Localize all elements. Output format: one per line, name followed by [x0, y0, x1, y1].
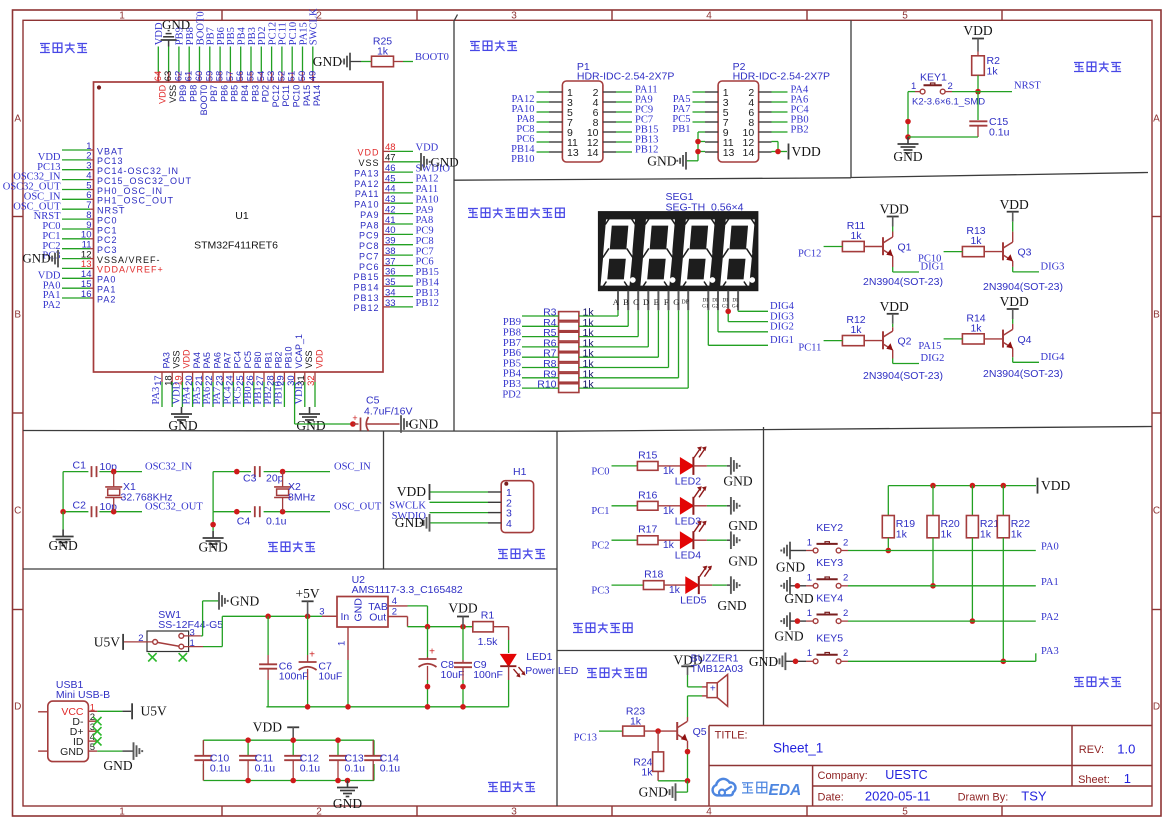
svg-text:2: 2 [843, 648, 848, 659]
resistor R11 1k [842, 220, 865, 252]
svg-text:48: 48 [385, 142, 396, 153]
svg-text:C3: C3 [243, 473, 257, 485]
svg-text:PA3: PA3 [151, 387, 162, 405]
svg-text:0.1u: 0.1u [989, 127, 1010, 139]
junction decoupling gnd [345, 778, 351, 784]
wire LED1 to gnd rail [508, 666, 510, 707]
net label BOOT0 [415, 52, 449, 63]
svg-text:2N3904(SOT-23): 2N3904(SOT-23) [863, 276, 943, 288]
mcu U1 pin 49 PA14 [307, 8, 322, 106]
svg-text:+: + [429, 647, 435, 658]
junction +5V [305, 614, 311, 620]
resistor R19 1k [882, 516, 915, 541]
mcu U1 pin 5 PH0_OSC_IN [24, 180, 163, 202]
net label PA11 [635, 85, 658, 96]
wire OSC left rail [213, 472, 251, 512]
net label PC11 [798, 343, 821, 354]
svg-text:20p: 20p [266, 473, 284, 485]
wire C4 to OSC_OUT [264, 511, 330, 513]
svg-text:D: D [1153, 702, 1160, 713]
svg-text:14: 14 [587, 147, 599, 159]
power flag VDD at Q2 [880, 299, 909, 324]
ground at KEY4 [774, 612, 803, 643]
svg-text:2: 2 [316, 806, 322, 817]
mcu U1 pin 57 PB5 [225, 27, 240, 102]
svg-text:+5V: +5V [296, 586, 320, 601]
svg-text:GND: GND [723, 474, 752, 489]
svg-text:KEY3: KEY3 [816, 557, 843, 569]
display SEG1 SEG-TH_0.56x4 [598, 191, 758, 291]
svg-text:TITLE:: TITLE: [715, 730, 748, 742]
wire LED3 to GND [693, 505, 730, 507]
mcu U1 pin 53 PC12 [266, 22, 281, 107]
mcu U1 pin 3 PC14-OSC32_IN [13, 161, 179, 183]
wire R10 to segment pin [579, 310, 688, 388]
capacitor C12 0.1u [284, 740, 320, 780]
svg-text:2N3904(SOT-23): 2N3904(SOT-23) [863, 370, 943, 382]
svg-text:PH1_OSC_OUT: PH1_OSC_OUT [97, 196, 174, 206]
svg-text:+: + [352, 413, 357, 423]
svg-text:PC10: PC10 [292, 85, 302, 108]
mcu U1 pin 37 PC6 [359, 256, 434, 272]
mcu U1 pin 36 PB15 [353, 267, 438, 283]
resistor R23 1k [623, 706, 646, 737]
wire R25 to BOOT0 [394, 61, 414, 63]
svg-text:32.768KHz: 32.768KHz [121, 492, 173, 504]
svg-text:PB8: PB8 [189, 85, 199, 102]
led LED5 [680, 566, 712, 607]
net label PC2 [591, 541, 609, 552]
svg-text:DIG2: DIG2 [921, 353, 945, 364]
resistor R16 1k [637, 489, 674, 517]
svg-text:VDDA/VREF+: VDDA/VREF+ [97, 265, 164, 275]
transistor Q3 2N3904 [983, 242, 1063, 293]
junction KEY1 gnd b [905, 134, 911, 140]
svg-text:HDR-IDC-2.54-2X7P: HDR-IDC-2.54-2X7P [577, 71, 674, 83]
mcu U1 pin 33 PB12 [353, 298, 438, 313]
svg-text:PB6: PB6 [219, 85, 229, 102]
svg-text:1k: 1k [970, 322, 982, 334]
wire Q4 collector to DIG4 [1013, 348, 1039, 362]
svg-text:PA1: PA1 [97, 285, 116, 295]
svg-text:PB7: PB7 [209, 85, 219, 102]
no-connect marks USB [93, 717, 101, 746]
svg-text:Q5: Q5 [693, 726, 707, 738]
mcu U1 pin 40 PC9 [359, 225, 434, 241]
ground at KEY1 [893, 137, 922, 164]
net label PB1 [672, 124, 690, 135]
mcu U1 pin 51 PC10 [287, 22, 302, 107]
svg-text:Drawn By:: Drawn By: [958, 791, 1009, 803]
svg-text:PC3: PC3 [97, 245, 118, 255]
svg-text:PA4: PA4 [192, 352, 202, 368]
net label DIG1 [770, 335, 794, 346]
wire buzzer pin2 to Q5 collector [688, 696, 708, 717]
svg-text:100nF: 100nF [279, 671, 309, 683]
ground at USB1 [103, 742, 142, 773]
net label DIG3 [770, 311, 794, 322]
power flag +5V [296, 586, 320, 616]
wire Q5 emitter down [687, 741, 689, 781]
junction gnd rail U2 [345, 704, 351, 710]
svg-text:GND: GND [162, 17, 190, 32]
net label PA15 [918, 341, 941, 352]
svg-text:KEY5: KEY5 [816, 633, 843, 645]
svg-text:VDD: VDD [1000, 197, 1029, 212]
svg-text:Q3: Q3 [1018, 247, 1032, 259]
wire LED4 to GND [693, 539, 730, 541]
svg-text:GND: GND [198, 540, 227, 555]
junction decoupling bottom [290, 778, 296, 784]
wire decoupling bottom rail [203, 764, 374, 781]
mcu U1 pin 10 PC2 [42, 230, 117, 252]
svg-text:PC7: PC7 [416, 246, 434, 257]
resistor R13 1k [962, 225, 985, 257]
svg-text:A: A [1153, 114, 1160, 125]
net label DIG4 [770, 301, 795, 312]
svg-text:G1: G1 [702, 304, 709, 310]
power flag VDD keys [1038, 478, 1071, 494]
wire Q3 collector to DIG3 [1013, 261, 1039, 272]
svg-text:PB10: PB10 [284, 346, 294, 368]
net label PC0 [591, 466, 609, 477]
net label PA2 [1041, 612, 1059, 623]
svg-text:R10: R10 [537, 379, 556, 391]
junction decoupling top [245, 737, 251, 743]
mcu U1 pin 11 PC3 [42, 240, 117, 262]
power flag VDD decoupling [253, 720, 299, 741]
svg-text:U1: U1 [235, 210, 249, 222]
mcu U1 pin 61 PB8 [184, 27, 199, 102]
mcu U1 pin 63 VSS [163, 47, 178, 103]
logo LCEDA [713, 779, 802, 799]
wire PB6 left [522, 346, 559, 348]
resistor R21 1k [966, 516, 999, 541]
wire PA15 to R14 [944, 338, 963, 340]
net label DIG4 [1041, 352, 1066, 363]
net label PC5 [672, 114, 690, 125]
ground at U1 pin 47 VSS [413, 161, 421, 163]
svg-text:PB12: PB12 [353, 303, 379, 313]
junction DIG3/DIG4 [725, 309, 731, 315]
junction X1 bottom [111, 509, 117, 515]
wire C2 to OSC32_OUT [99, 511, 142, 513]
section title 主控芯片 [40, 43, 87, 54]
resistor R14 1k [962, 312, 985, 344]
section title 蜂鸣器电路 [587, 668, 646, 679]
connector USB1 Mini USB-B [38, 679, 110, 762]
mcu U1 body [94, 82, 384, 372]
svg-text:PA13: PA13 [354, 168, 379, 178]
svg-text:DIG3: DIG3 [1041, 261, 1065, 272]
ground at KEY3 [781, 577, 814, 606]
svg-text:H1: H1 [513, 466, 527, 478]
svg-text:LED3: LED3 [675, 515, 701, 527]
svg-text:+: + [309, 650, 315, 661]
svg-text:PC15_OSC32_OUT: PC15_OSC32_OUT [97, 176, 192, 186]
net label PB5 [503, 358, 521, 369]
power flag VDD power [448, 601, 477, 627]
net label PA3 [1036, 646, 1059, 662]
wire PC1 to R16 [612, 505, 638, 507]
switch KEY1 K2-3.6x6.1_SMD [911, 72, 985, 108]
net label PB0 [791, 115, 809, 126]
wire U2 GND pin1 [347, 627, 349, 707]
wire power gnd rail [266, 706, 508, 708]
svg-text:LED1: LED1 [526, 651, 552, 663]
transistor Q4 2N3904 [983, 329, 1063, 380]
net label PC6 [516, 134, 534, 145]
wire U2 Out pin2 [388, 617, 473, 627]
svg-text:1: 1 [807, 573, 812, 584]
svg-text:Date:: Date: [818, 791, 844, 803]
svg-text:G4: G4 [732, 304, 739, 310]
switch KEY3 [790, 557, 848, 588]
svg-text:PA6: PA6 [212, 352, 222, 368]
junction X1 top [111, 469, 117, 475]
wire KEY4 to PA2 [848, 620, 1036, 622]
junction VDD node C9 [460, 624, 466, 630]
capacitor C15 0.1u [969, 92, 1009, 139]
svg-text:PC14-OSC32_IN: PC14-OSC32_IN [97, 166, 179, 176]
resistor R25 1k [372, 36, 394, 67]
svg-text:PB10: PB10 [511, 154, 534, 165]
transistor Q5 [677, 722, 707, 741]
mcu U1 pin 1 VBAT [38, 141, 124, 163]
junction gnd rail C8 [425, 704, 431, 710]
net label OSC_IN [334, 461, 371, 472]
resistor R17 1k [637, 524, 674, 552]
svg-text:Q2: Q2 [898, 336, 912, 348]
net label PA10 [512, 104, 535, 115]
svg-text:VDD: VDD [880, 202, 909, 217]
wire PC3 to R18 [612, 584, 644, 586]
svg-text:2: 2 [843, 608, 848, 619]
svg-text:B: B [1153, 310, 1160, 321]
svg-text:PB10: PB10 [273, 381, 284, 404]
section title 外扩接口 [470, 41, 517, 52]
mcu U1 pin 20 PA4 [182, 352, 202, 407]
wire VDD rail to R22 [1002, 486, 1004, 516]
switch SW1 SS-12F44-G5 [138, 609, 223, 652]
wire R20 to KEY3 row [932, 538, 934, 586]
svg-text:VDD: VDD [182, 349, 192, 369]
svg-text:PB2: PB2 [274, 351, 284, 368]
ground at X1 [48, 530, 77, 554]
net label OSC_OUT [334, 501, 382, 512]
mcu U1 pin 50 PA15 [297, 22, 312, 106]
wire C15 to GND [908, 136, 978, 138]
svg-text:49: 49 [307, 71, 318, 82]
svg-text:PA5: PA5 [202, 352, 212, 368]
net label PB4 [503, 369, 522, 380]
mcu U1 pin 7 NRST [34, 200, 126, 222]
section title 指示灯电路 [573, 623, 632, 634]
svg-text:PC9: PC9 [359, 231, 380, 241]
wire R23 to Q5 base [644, 730, 677, 732]
junction P2 pin13 [695, 149, 701, 155]
svg-text:VBAT: VBAT [97, 146, 124, 156]
section title 调试电路 [498, 549, 545, 560]
svg-text:PB9: PB9 [178, 85, 188, 102]
buzzer BUZZER1 TMB12A03 [691, 653, 744, 707]
svg-text:1k: 1k [663, 505, 675, 517]
net label PB7 [503, 338, 521, 349]
wire VDD to Q1 emitter [892, 227, 894, 238]
mcu U1 pin 14 PA0 [43, 269, 117, 291]
wire DIG1 [708, 310, 768, 345]
svg-text:VDD: VDD [357, 148, 379, 158]
svg-text:TMB12A03: TMB12A03 [691, 663, 744, 675]
svg-text:PB3: PB3 [250, 85, 260, 102]
connector P2 HDR-IDC-2.54-2X7P [693, 61, 831, 162]
svg-text:PB14: PB14 [353, 283, 379, 293]
wire PC0 to R15 [612, 465, 638, 467]
section title 四位共阳极数码管 [468, 208, 564, 218]
net label PA7 [673, 104, 691, 115]
wire NRST [978, 91, 1012, 93]
power flag VDD at H1 [397, 484, 430, 500]
svg-text:13: 13 [567, 147, 579, 159]
resistor R15 1k [637, 449, 674, 477]
junction P2 pin14 [775, 149, 781, 155]
svg-text:1k: 1k [583, 379, 595, 391]
svg-text:2: 2 [843, 537, 848, 548]
svg-text:44: 44 [385, 184, 396, 195]
transistor Q2 2N3904 [863, 331, 943, 382]
mcu U1 pin 19 VDD [171, 349, 191, 407]
no-connect marks SW1 [148, 653, 187, 661]
wire PC10 to R13 [944, 251, 963, 253]
wire R8 to segment pin [579, 310, 669, 367]
crystal X1 32.768KHz [105, 472, 172, 512]
svg-text:BOOT0: BOOT0 [199, 85, 209, 116]
junction KEY4 [970, 618, 976, 624]
power flag U5V at USB [132, 703, 167, 719]
mcu U1 pin 38 PC7 [359, 246, 434, 262]
svg-text:VDD: VDD [294, 381, 305, 404]
wire USB VCC to U5V [97, 710, 131, 712]
junction decoupling top [290, 737, 296, 743]
resistor R6 1k [543, 337, 594, 351]
resistor R3 1k [543, 307, 594, 321]
svg-text:VDD: VDD [880, 299, 909, 314]
svg-text:VDD: VDD [963, 23, 992, 38]
wire SW1 pin1 to 5V rail [184, 616, 337, 646]
svg-text:PA3: PA3 [1041, 646, 1059, 657]
svg-text:OSC_IN: OSC_IN [334, 461, 371, 472]
connector H1 [430, 466, 534, 533]
svg-text:KEY2: KEY2 [816, 522, 843, 534]
wire R5 to segment pin [579, 310, 638, 336]
svg-text:4: 4 [706, 10, 712, 21]
svg-text:GND: GND [728, 553, 757, 568]
svg-text:PC8: PC8 [416, 236, 434, 247]
svg-text:PA9: PA9 [360, 210, 379, 220]
svg-text:VDD: VDD [397, 484, 426, 499]
mcu U1 pin 42 PA9 [360, 204, 433, 220]
wire OSC32 left rail [63, 472, 88, 512]
capacitor C6 100nF [259, 616, 308, 707]
wire KEY5 to PA3 [848, 660, 1036, 662]
svg-text:2: 2 [843, 573, 848, 584]
wire VDD to Q2 emitter [892, 324, 894, 331]
svg-text:DIG1: DIG1 [770, 335, 794, 346]
svg-text:PC1: PC1 [591, 506, 609, 517]
svg-text:PB5: PB5 [230, 85, 240, 102]
svg-text:VDD: VDD [1000, 294, 1029, 309]
junction KEY3 [930, 583, 936, 589]
mcu U1 pin 60 BOOT0 [194, 11, 209, 115]
net label PB8 [503, 328, 521, 339]
svg-text:45: 45 [385, 173, 396, 184]
display SEG1 pins [613, 291, 739, 311]
net label PB3 [503, 379, 521, 390]
wire LED2 to GND [693, 465, 730, 467]
svg-text:D: D [14, 702, 21, 713]
svg-text:PA12: PA12 [416, 174, 439, 185]
svg-text:Sheet:: Sheet: [1078, 774, 1110, 786]
junction X2 top [280, 469, 286, 475]
net label PC12 [798, 249, 821, 260]
junction VDD node C8 [425, 624, 431, 630]
wire R3 to segment pin [579, 310, 618, 316]
svg-text:A: A [14, 114, 21, 125]
wire KEY1 pin2 to NRST node [952, 91, 978, 93]
mcu U1 pin 56 PB4 [235, 26, 250, 101]
junction gnd rail C7 [305, 704, 311, 710]
svg-text:PC2: PC2 [591, 541, 609, 552]
mcu U1 pin 9 PC1 [42, 220, 117, 242]
wire LED5 to GND [699, 584, 731, 586]
wire keys VDD rail [888, 486, 1036, 516]
svg-text:13: 13 [723, 147, 735, 159]
svg-text:B: B [623, 297, 629, 307]
wire R17 to LED4 [658, 539, 682, 541]
svg-text:1k: 1k [663, 465, 675, 477]
svg-text:GND: GND [22, 251, 50, 266]
ground at LED4 [728, 531, 757, 568]
power flag U5V at SW1 [94, 634, 123, 650]
wire KEY1 pin1 to GND [908, 92, 915, 137]
svg-text:Power LED: Power LED [525, 665, 579, 677]
svg-text:STM32F411RET6: STM32F411RET6 [194, 240, 278, 252]
resistor R7 1k [543, 348, 594, 362]
svg-text:10uF: 10uF [318, 671, 342, 683]
mcu U1 pin 25 PC5 [233, 351, 253, 407]
svg-text:Mini USB-B: Mini USB-B [56, 689, 110, 701]
wire R21 to KEY4 row [971, 538, 973, 621]
svg-text:R16: R16 [638, 489, 657, 501]
led LED2 [675, 446, 707, 487]
wire PB7 left [522, 336, 559, 338]
resistor R12 1k [842, 314, 865, 346]
mcu U1 pin 28 PB2 [263, 351, 283, 407]
svg-text:OSC32_IN: OSC32_IN [145, 461, 193, 472]
mcu U1 pin 55 PB3 [246, 27, 261, 102]
svg-text:GND: GND [774, 629, 803, 644]
svg-text:DIG4: DIG4 [1041, 352, 1066, 363]
svg-text:B: B [14, 310, 21, 321]
wire Q2 collector to DIG2 [893, 350, 919, 364]
mcu U1 pin 8 PC0 [42, 210, 117, 232]
wire PB5 left [522, 356, 559, 358]
wire to buzzer gnd [676, 781, 688, 792]
switch KEY2 [790, 522, 848, 553]
svg-text:PH0_OSC_IN: PH0_OSC_IN [97, 186, 163, 196]
mcu U1 pin 62 PB9 [173, 27, 188, 102]
wire X1 gnd [62, 512, 64, 530]
